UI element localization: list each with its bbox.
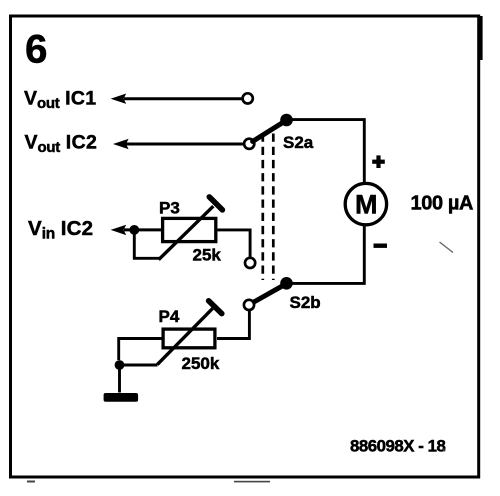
junction node P3 left <box>129 225 139 235</box>
wire meter - to S2b pole <box>287 225 365 284</box>
svg-text:S2b: S2b <box>290 293 321 312</box>
svg-text:P4: P4 <box>159 307 180 326</box>
minus terminal label <box>374 244 388 248</box>
terminal circle IC1 <box>243 93 253 103</box>
ground <box>104 393 139 402</box>
wire S2a to meter + <box>287 120 365 184</box>
scan artifact right border thick top <box>480 16 483 60</box>
potentiometer P3 body <box>163 218 216 241</box>
dashed gang linkage S2a-S2b <box>263 134 274 281</box>
svg-text:Vout IC2: Vout IC2 <box>25 132 98 156</box>
svg-text:886098X - 18: 886098X - 18 <box>350 437 445 456</box>
wire P4 left to junction <box>119 339 162 361</box>
switch S2b <box>244 277 293 310</box>
wire Vout IC2 to S2a pole <box>113 139 244 149</box>
wire P3 wiper tie to left terminal <box>134 230 159 258</box>
svg-text:S2a: S2a <box>283 133 314 152</box>
plus terminal label <box>372 155 385 168</box>
scan artifact diagonal <box>440 242 454 253</box>
scan artifact below border mid <box>234 481 270 483</box>
scan artifact dot <box>443 449 446 452</box>
wire Vout IC1 to S2a fixed contact <box>111 94 242 104</box>
junction node P4 ground <box>115 360 125 370</box>
wire P3 right to terminal <box>218 230 251 258</box>
svg-text:Vout IC1: Vout IC1 <box>24 88 96 112</box>
wire junction to ground <box>118 367 121 393</box>
P4 wiper arm <box>157 301 222 365</box>
wire Vin IC2 arrow <box>111 225 161 235</box>
svg-text:P3: P3 <box>159 199 180 218</box>
wire S2b throw down to P4 <box>217 310 249 339</box>
potentiometer P4 body <box>163 329 215 348</box>
wire P4 wiper tie to junction <box>120 364 158 367</box>
P3 wiper arm <box>159 197 223 260</box>
svg-text:100 µA: 100 µA <box>411 193 474 215</box>
meter M <box>345 183 386 224</box>
scan artifact below border left <box>27 481 35 483</box>
svg-text:Vin IC2: Vin IC2 <box>28 217 93 242</box>
switch S2a <box>244 114 293 149</box>
terminal circle P3 <box>245 258 255 268</box>
svg-text:25k: 25k <box>193 246 222 265</box>
svg-text:M: M <box>355 190 378 220</box>
svg-text:6: 6 <box>25 28 48 72</box>
svg-text:250k: 250k <box>182 354 220 373</box>
